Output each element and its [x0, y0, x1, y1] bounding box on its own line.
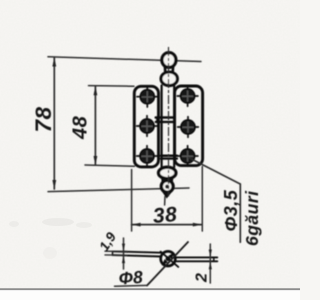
38 right extension line — [201, 167, 203, 232]
svg-text:38: 38 — [152, 203, 178, 228]
bottom ball — [161, 181, 173, 193]
pin centerline — [168, 48, 170, 197]
bottom bulb — [159, 167, 176, 178]
barrel left line — [161, 86, 163, 168]
lower white strip — [0, 290, 300, 300]
barrel right line — [173, 86, 175, 168]
plan view right leaf bar — [175, 257, 217, 261]
hole L1 — [137, 86, 158, 107]
paper smudges — [9, 218, 92, 259]
lower knuckle joint band — [161, 156, 177, 159]
page divider line — [0, 288, 300, 290]
hole R2 — [178, 117, 199, 138]
top ball finial — [162, 53, 176, 68]
78 top extension line — [48, 57, 201, 62]
svg-text:48: 48 — [70, 115, 92, 140]
dimension 1,9 — [122, 238, 125, 269]
upper knuckle joint band — [156, 118, 175, 122]
38 left extension line — [131, 170, 133, 232]
svg-text:Φ3,5: Φ3,5 — [221, 189, 241, 231]
bottom tip — [164, 192, 171, 197]
left leaf outline — [134, 86, 158, 167]
svg-text:78: 78 — [31, 106, 56, 132]
dimension 38 line — [131, 223, 202, 227]
hole note fraction bar — [239, 184, 241, 242]
svg-text:2: 2 — [194, 273, 211, 283]
leader to hole note — [189, 158, 241, 185]
centerline stub below tip — [164, 197, 166, 206]
phi8 leader through barrel — [147, 242, 188, 286]
1,9 extension ticks — [105, 251, 127, 255]
svg-text:6găuri: 6găuri — [242, 190, 262, 246]
dimension 78 line — [52, 57, 56, 189]
hole R1 — [177, 86, 198, 107]
dimension 2 — [209, 244, 212, 283]
78 bottom extension line — [48, 188, 189, 192]
plan view left leaf bar — [113, 251, 162, 256]
phi8 leader arrowheads — [168, 252, 174, 259]
right leaf outline — [175, 86, 203, 166]
collar bulb — [161, 72, 177, 86]
barrel cross diagonal — [161, 252, 179, 267]
phi8 underline — [115, 284, 148, 287]
plan view barrel circle — [161, 251, 176, 266]
hole L3 — [137, 146, 158, 167]
48 top extension line — [89, 85, 135, 88]
bottom neck — [162, 178, 172, 183]
dimension 48 line — [94, 86, 98, 165]
48 bottom extension line — [85, 165, 135, 166]
finial neck — [165, 67, 173, 73]
hole R3 — [177, 146, 198, 167]
barrel pin center dot — [166, 256, 171, 261]
bottom ball center — [165, 185, 169, 189]
hole L2 — [137, 116, 158, 137]
